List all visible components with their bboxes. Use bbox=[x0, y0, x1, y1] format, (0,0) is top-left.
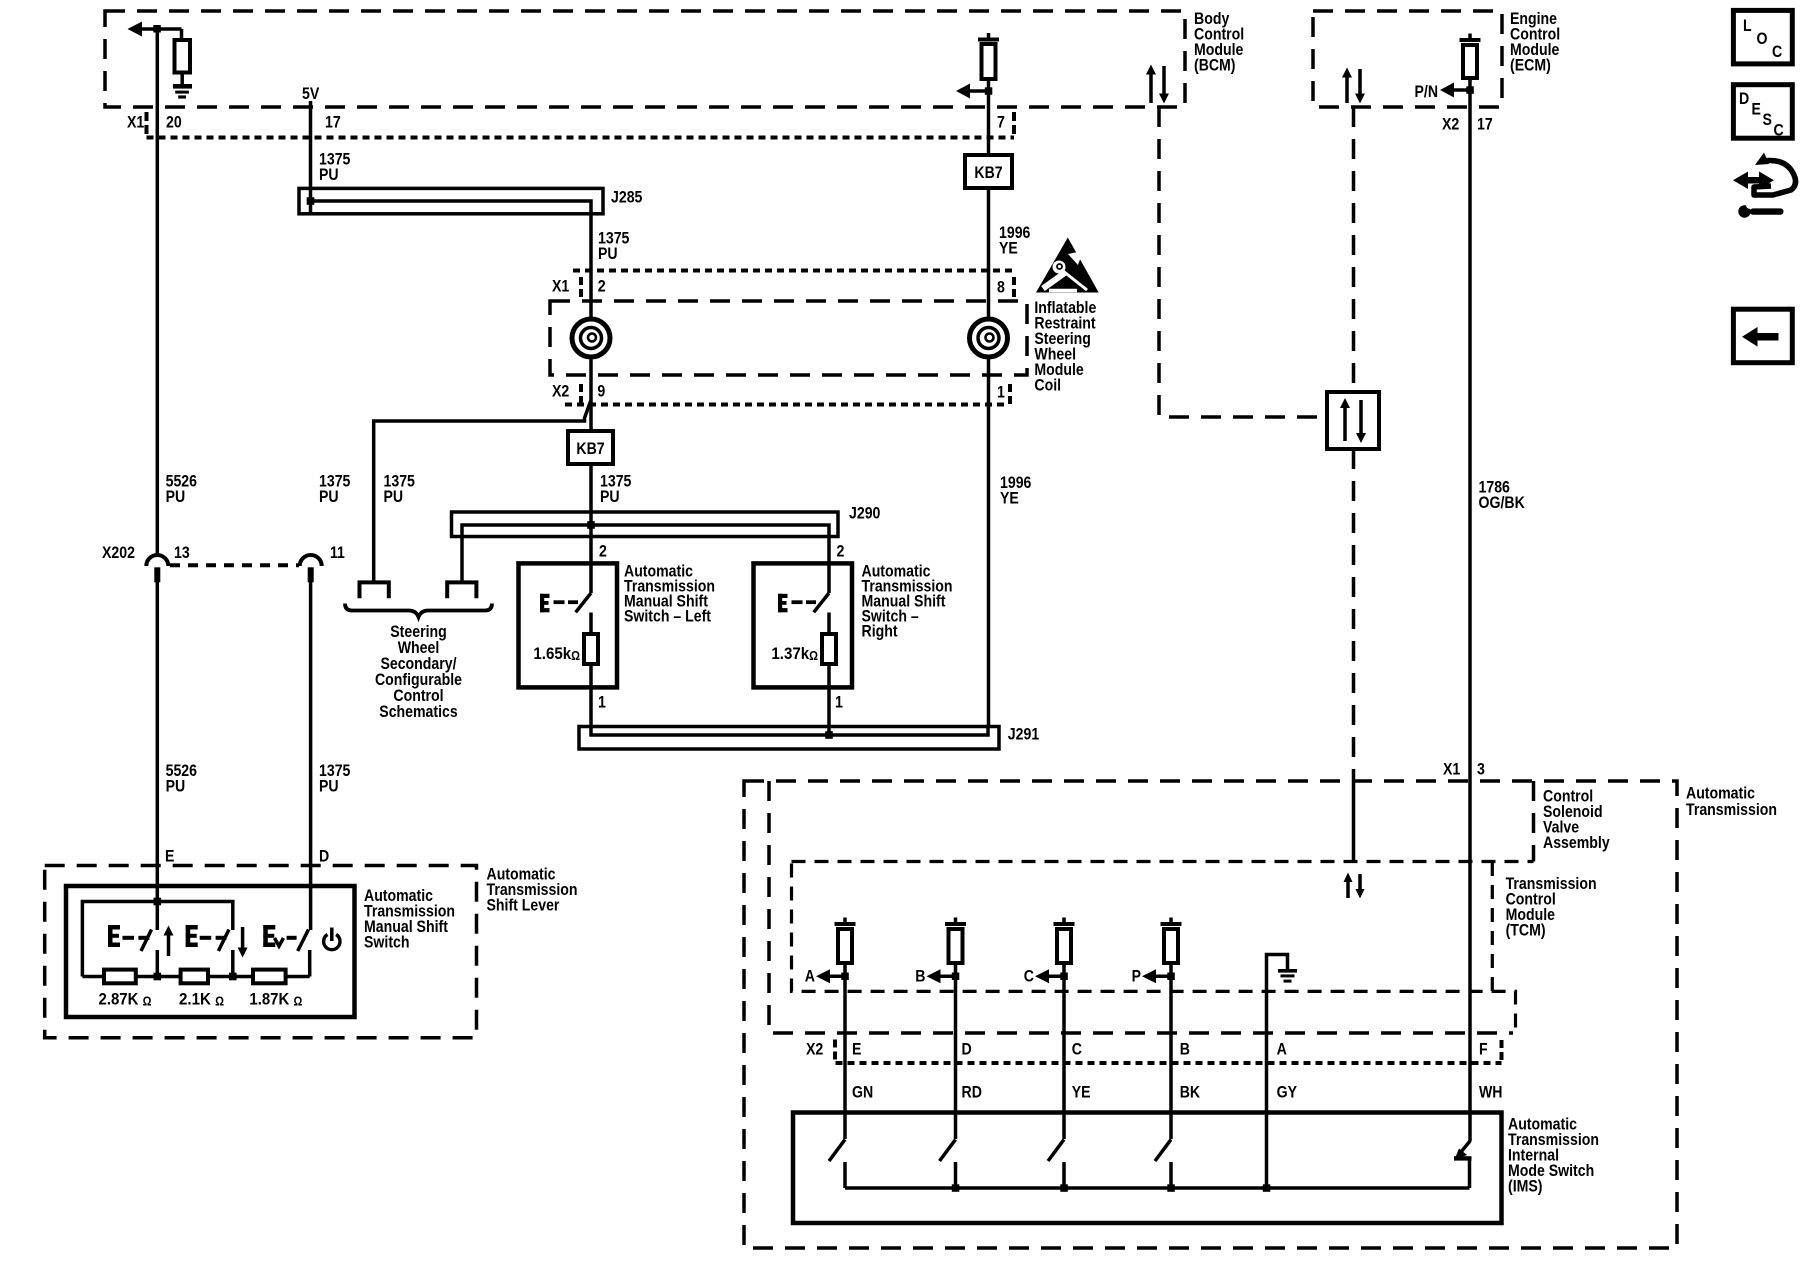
resistor 2.1K bbox=[181, 970, 208, 984]
svg-text:PU: PU bbox=[166, 777, 186, 796]
left switch label bbox=[624, 561, 715, 625]
pin E label bbox=[165, 846, 174, 865]
Automatic Transmission dashed box bbox=[744, 781, 1677, 1248]
wire color GN bbox=[852, 1082, 873, 1101]
manual shift switch label bbox=[364, 886, 455, 952]
svg-text:WH: WH bbox=[1479, 1082, 1503, 1101]
BCM X1 connector dotted line bbox=[147, 136, 1015, 140]
dashed serial data line from ECM upper bbox=[1352, 107, 1356, 392]
switch symbol E (left switch) bbox=[540, 593, 591, 612]
pin C bbox=[1072, 1039, 1082, 1058]
solenoid driver resistor P bbox=[1161, 918, 1182, 1140]
svg-text:YE: YE bbox=[1072, 1082, 1091, 1101]
svg-text:D: D bbox=[1739, 89, 1749, 108]
svg-text:Right: Right bbox=[862, 621, 898, 640]
TCM X2 connector dotted line bbox=[836, 1061, 1502, 1065]
junction dot ECM pin 17 bbox=[1466, 86, 1474, 94]
steering wheel stub 1 bbox=[360, 582, 389, 598]
ground symbol inside BCM bbox=[173, 84, 192, 99]
svg-text:5V: 5V bbox=[302, 84, 320, 103]
connector X1 label (coil) bbox=[552, 277, 569, 296]
down arrow bbox=[238, 927, 248, 958]
IMS label bbox=[1508, 1114, 1599, 1195]
svg-text:X202: X202 bbox=[102, 543, 135, 562]
airbag warning triangle bbox=[1036, 238, 1099, 293]
svg-text:KB7: KB7 bbox=[576, 439, 604, 458]
connector X1 label (transmission) bbox=[1443, 759, 1460, 778]
node 5V bbox=[302, 84, 320, 103]
pin 2 label (right switch) bbox=[837, 541, 845, 560]
coil label bbox=[1034, 298, 1096, 395]
svg-text:C: C bbox=[1772, 42, 1782, 61]
svg-text:2: 2 bbox=[598, 277, 606, 296]
svg-text:E: E bbox=[1752, 100, 1761, 119]
power icon bbox=[324, 928, 340, 950]
IMS wiper switch F bbox=[1454, 1141, 1472, 1188]
Control Solenoid Valve Assembly dashed right edge bbox=[1532, 781, 1536, 862]
BCM data up/down arrows bbox=[1146, 65, 1169, 104]
coil right (clockspring) bbox=[970, 319, 1008, 357]
connector X202 label bbox=[102, 543, 135, 562]
solenoid driver resistor B bbox=[945, 918, 966, 1140]
svg-text:X1: X1 bbox=[1443, 759, 1460, 778]
connector X1 label (BCM) bbox=[127, 113, 144, 132]
IMS switch E blade bbox=[829, 1140, 845, 1189]
svg-text:GY: GY bbox=[1277, 1082, 1298, 1101]
svg-text:E: E bbox=[165, 846, 174, 865]
J285 splice bus bbox=[299, 188, 603, 214]
pin 17 bbox=[325, 113, 341, 132]
label 1786 OG/BK bbox=[1479, 477, 1526, 512]
svg-text:PU: PU bbox=[166, 487, 186, 506]
Automatic Transmission Manual Shift Switch - Left box bbox=[519, 563, 618, 687]
up arrow bbox=[164, 926, 174, 957]
svg-text:OG/BK: OG/BK bbox=[1479, 493, 1526, 512]
switch 2 blade bbox=[218, 930, 232, 977]
pin 20 bbox=[166, 113, 182, 132]
wire: KB7 down to coil X1-8 bbox=[987, 188, 991, 321]
svg-text:7: 7 bbox=[997, 113, 1005, 132]
value label 2.87K ohm bbox=[99, 990, 152, 1009]
svg-text:J285: J285 bbox=[611, 188, 642, 207]
Automatic Transmission Manual Shift Switch - Right box bbox=[754, 563, 853, 687]
svg-text:GN: GN bbox=[852, 1082, 873, 1101]
svg-text:KB7: KB7 bbox=[974, 163, 1002, 182]
KB7 fuse box (BCM side) bbox=[965, 155, 1012, 188]
solid serial data line into transmission bbox=[1352, 781, 1356, 862]
label 1375 PU (lower) bbox=[319, 761, 350, 796]
TCM dashed right edge bbox=[1491, 862, 1494, 991]
connector separator X1 bbox=[145, 112, 149, 134]
pin 8 (coil X1) bbox=[997, 278, 1005, 297]
pin 3 (transmission X1) bbox=[1477, 759, 1485, 778]
label 1375 PU (5V wire above X202) bbox=[319, 471, 350, 506]
BCM internal left arrow (signal to left) bbox=[128, 22, 182, 37]
Control Solenoid Valve Assembly dashed bottom edge bbox=[792, 860, 1534, 863]
solenoid driver resistor C bbox=[1054, 918, 1075, 1140]
IMS switch D blade bbox=[940, 1140, 956, 1189]
svg-text:YE: YE bbox=[999, 239, 1018, 258]
svg-text:X1: X1 bbox=[552, 277, 569, 296]
steering wheel stub 2 bbox=[447, 582, 476, 598]
resistor 1.37k (right switch) bbox=[822, 613, 836, 736]
pin 2 label (left switch) bbox=[599, 541, 607, 560]
svg-text:1: 1 bbox=[598, 693, 606, 712]
dashed jumper wire X202 13-11 bbox=[170, 563, 299, 567]
pin 7 bbox=[997, 113, 1005, 132]
wire: BCM pin 7 down to KB7 (circuit 1996 YE) bbox=[987, 91, 991, 155]
svg-text:17: 17 bbox=[1477, 115, 1493, 134]
svg-text:13: 13 bbox=[174, 543, 190, 562]
value label 2.1K ohm bbox=[179, 990, 224, 1009]
pin B bbox=[1180, 1039, 1190, 1058]
svg-text:J291: J291 bbox=[1008, 724, 1039, 743]
svg-text:J290: J290 bbox=[849, 504, 880, 523]
svg-text:O: O bbox=[1757, 29, 1768, 48]
internal top link wire bbox=[82, 902, 232, 977]
wire color YE bbox=[1072, 1082, 1091, 1101]
arrow left at BCM pin 7 bbox=[956, 84, 989, 99]
Body Control Module (BCM) dashed box bbox=[105, 11, 1185, 107]
pin D label bbox=[319, 846, 329, 865]
back arrow icon box bbox=[1733, 309, 1792, 363]
junction dot at BCM pin 20 branch bbox=[153, 25, 161, 33]
junction dot IMS D bbox=[952, 1184, 960, 1192]
junction dot J285 bbox=[307, 197, 315, 205]
wire: X202-13 down to shift switch E (5526 PU) bbox=[156, 582, 160, 930]
pin F bbox=[1479, 1039, 1488, 1058]
svg-text:L: L bbox=[1743, 16, 1752, 35]
pin D bbox=[962, 1039, 972, 1058]
pin 17 (ECM) bbox=[1477, 115, 1493, 134]
connector separator after pin 7 bbox=[1012, 112, 1016, 134]
svg-text:C: C bbox=[1774, 121, 1784, 140]
pin A bbox=[1277, 1039, 1287, 1058]
LOC icon box bbox=[1733, 10, 1792, 64]
connector separator coil X2 left bbox=[579, 384, 583, 404]
svg-text:1: 1 bbox=[835, 693, 843, 712]
wire color WH bbox=[1479, 1082, 1503, 1101]
coil X2 connector dotted line bbox=[565, 403, 1008, 407]
resistor 1.65k (left switch) bbox=[584, 613, 598, 727]
svg-text:D: D bbox=[319, 846, 329, 865]
wire: coil X2-1 down to J291 (1996 YE) bbox=[987, 356, 991, 727]
ground symbol (TCM) bbox=[1278, 969, 1297, 983]
wire color RD bbox=[962, 1082, 982, 1101]
label J285 bbox=[611, 188, 642, 207]
resistor at BCM pin 7 driver bbox=[978, 33, 999, 91]
connector X2 label (coil) bbox=[552, 381, 569, 400]
wire: ECM X2-17 down to IMS (circuit 1786 OG/BK) bbox=[1468, 90, 1472, 1142]
connector X2 label (ECM) bbox=[1442, 115, 1459, 134]
junction dot IMS A bbox=[1263, 1184, 1271, 1192]
junction dot A bbox=[841, 973, 849, 981]
junction dot IMS C bbox=[1060, 1184, 1068, 1192]
BCM label bbox=[1194, 9, 1244, 75]
value label 1.87K ohm bbox=[249, 990, 302, 1009]
svg-text:B: B bbox=[915, 967, 925, 986]
switch 1 blade bbox=[141, 930, 157, 977]
node P arrow bbox=[1132, 967, 1171, 986]
svg-text:PU: PU bbox=[319, 777, 339, 796]
svg-text:(ECM): (ECM) bbox=[1510, 56, 1551, 75]
branch wire from coil X2-9 to steering wheel stub (1375 PU) bbox=[374, 400, 591, 581]
wire: X202-11 down to shift switch D (1375 PU) bbox=[309, 582, 313, 930]
wire: J290 to right shift switch pin 2 bbox=[827, 537, 831, 594]
svg-text:Assembly: Assembly bbox=[1543, 833, 1610, 852]
value label 1.37k ohm bbox=[771, 644, 818, 663]
svg-text:P/N: P/N bbox=[1415, 82, 1439, 101]
connector X2 label (TCM) bbox=[806, 1039, 823, 1058]
junction dot BCM pin 7 bbox=[985, 87, 993, 95]
svg-text:Transmission: Transmission bbox=[1686, 800, 1777, 819]
connector separator coil X2 right bbox=[1008, 384, 1012, 404]
svg-text:A: A bbox=[805, 967, 815, 986]
svg-text:X2: X2 bbox=[806, 1039, 823, 1058]
Automatic Transmission label bbox=[1686, 784, 1777, 820]
svg-text:RD: RD bbox=[962, 1082, 982, 1101]
junction dot B bbox=[952, 973, 960, 981]
wire color BK bbox=[1180, 1082, 1201, 1101]
svg-text:PU: PU bbox=[600, 487, 620, 506]
svg-text:Switch – Left: Switch – Left bbox=[624, 606, 711, 625]
TCM pin area dashed box bbox=[792, 864, 1516, 1032]
svg-text:B: B bbox=[1180, 1039, 1190, 1058]
junction dot switch E input bbox=[154, 898, 162, 906]
value label 1.65k ohm bbox=[533, 644, 580, 663]
junction dot bus 2 bbox=[229, 973, 237, 981]
node B arrow bbox=[915, 967, 955, 986]
svg-text:Shift Lever: Shift Lever bbox=[487, 895, 560, 914]
svg-text:YE: YE bbox=[1000, 489, 1019, 508]
TCM dashed box left and bottom bbox=[769, 781, 1513, 1033]
switch 1 (up) symbol E bbox=[108, 925, 149, 947]
solenoid driver resistor A bbox=[835, 918, 856, 1140]
resistor inside BCM (pull-up) bbox=[175, 29, 191, 84]
label J290 bbox=[849, 504, 880, 523]
svg-text:PU: PU bbox=[384, 487, 404, 506]
switch 3 blade bbox=[298, 930, 310, 977]
svg-text:X1: X1 bbox=[127, 113, 144, 132]
svg-text:P: P bbox=[1132, 967, 1141, 986]
svg-text:C: C bbox=[1072, 1039, 1082, 1058]
label 1375 PU (below J285) bbox=[598, 228, 629, 263]
label 5526 PU (lower) bbox=[166, 761, 197, 796]
svg-text:2: 2 bbox=[837, 541, 845, 560]
wire: BCM X1-20 down to X202-13 (circuit 5526 PU) bbox=[156, 29, 160, 555]
svg-text:F: F bbox=[1479, 1039, 1488, 1058]
svg-text:PU: PU bbox=[319, 165, 339, 184]
serial data gateway box with up/down arrows bbox=[1327, 392, 1379, 449]
switch 3 (power) symbol Ev bbox=[263, 925, 296, 947]
brace for steering wheel schematics bbox=[345, 604, 492, 618]
junction dot J290 bbox=[587, 521, 595, 529]
X202 pin 11 connector symbol bbox=[300, 555, 322, 582]
svg-text:D: D bbox=[962, 1039, 972, 1058]
pin 1 (coil X2) bbox=[997, 382, 1005, 401]
svg-text:S: S bbox=[1763, 110, 1772, 129]
Automatic Transmission Shift Lever dashed box bbox=[45, 866, 477, 1038]
svg-text:X2: X2 bbox=[1442, 115, 1459, 134]
resistor 2.87K bbox=[104, 970, 136, 984]
pin 13 label bbox=[174, 543, 190, 562]
coil left (clockspring) bbox=[572, 319, 610, 357]
svg-text:9: 9 bbox=[597, 381, 605, 400]
switch 2 (down) symbol E bbox=[186, 925, 227, 947]
connector separator coil X1 left bbox=[579, 277, 583, 297]
Engine Control Module (ECM) dashed box bbox=[1313, 11, 1502, 107]
dashed serial data line from BCM bbox=[1159, 107, 1325, 417]
label 1996 YE (lower) bbox=[1000, 473, 1031, 508]
dashed serial data line from gateway down bbox=[1352, 449, 1356, 781]
wire: J285 down to coil X1-2 (1375 PU) bbox=[589, 214, 593, 321]
junction dot bus 1 bbox=[154, 973, 162, 981]
label 1375 PU (branch wire) bbox=[384, 471, 415, 506]
svg-text:X2: X2 bbox=[552, 381, 569, 400]
connector separator TCM X2 right bbox=[1500, 1040, 1504, 1060]
label 1996 YE (upper) bbox=[999, 223, 1030, 258]
svg-text:8: 8 bbox=[997, 278, 1005, 297]
IMS common bus bbox=[845, 1186, 1470, 1190]
svg-text:E: E bbox=[852, 1039, 861, 1058]
node P/N with arrow bbox=[1415, 82, 1471, 101]
wire: 5V to BCM X1-17 to J285 bbox=[309, 101, 313, 214]
pin 9 (coil X2) bbox=[597, 381, 605, 400]
TCM label bbox=[1506, 874, 1597, 940]
svg-text:20: 20 bbox=[166, 113, 182, 132]
node C arrow bbox=[1024, 967, 1064, 986]
label J291 bbox=[1008, 724, 1039, 743]
steering wheel schematics label bbox=[375, 622, 462, 721]
svg-text:C: C bbox=[1024, 967, 1034, 986]
J290 splice bus bbox=[452, 512, 839, 537]
ECM data up/down arrows bbox=[1342, 68, 1365, 104]
svg-text:(TCM): (TCM) bbox=[1506, 921, 1546, 940]
resistor network bus bbox=[82, 975, 309, 979]
svg-text:3: 3 bbox=[1477, 759, 1485, 778]
ECM label bbox=[1510, 9, 1560, 75]
CSVA label bbox=[1543, 786, 1610, 852]
svg-text:2: 2 bbox=[599, 541, 607, 560]
X202 pin 13 connector symbol bbox=[146, 555, 168, 582]
switch symbol E (right switch) bbox=[778, 593, 829, 612]
resistor 1.87K bbox=[253, 970, 286, 984]
IMS switch C blade bbox=[1048, 1140, 1064, 1189]
connector separator coil X1 right bbox=[1012, 277, 1016, 297]
junction dot P bbox=[1167, 973, 1175, 981]
svg-text:11: 11 bbox=[330, 543, 345, 562]
svg-text:(BCM): (BCM) bbox=[1194, 56, 1236, 75]
Inflatable Restraint Steering Wheel Module Coil dashed box bbox=[550, 301, 1027, 375]
svg-text:BK: BK bbox=[1180, 1082, 1201, 1101]
KB7 fuse box (coil side) bbox=[568, 431, 613, 464]
svg-text:17: 17 bbox=[325, 113, 341, 132]
pin 2 (coil X1) bbox=[598, 277, 606, 296]
svg-text:Coil: Coil bbox=[1034, 376, 1061, 395]
pin 11 label bbox=[330, 543, 345, 562]
node A arrow bbox=[805, 967, 845, 986]
pin 1 label (left switch) bbox=[598, 693, 606, 712]
junction dot IMS B bbox=[1167, 1184, 1175, 1192]
label 1375 PU (above J285, 5V wire) bbox=[319, 149, 350, 184]
pin 1 label (right switch) bbox=[835, 693, 843, 712]
J291 splice bus bbox=[579, 727, 999, 750]
junction dot J291 bbox=[825, 731, 833, 739]
DESC icon box bbox=[1733, 85, 1792, 140]
resistor at ECM pin 17 bbox=[1460, 34, 1481, 91]
svg-text:(IMS): (IMS) bbox=[1508, 1176, 1543, 1195]
IMS switch B blade bbox=[1155, 1140, 1171, 1189]
wire: coil X2-9 down through KB7 to J290 bbox=[589, 356, 593, 594]
label 1375 PU (below KB7) bbox=[600, 471, 631, 506]
TCM internal ground wire bbox=[1267, 955, 1288, 1189]
connector separator TCM X2 left bbox=[833, 1040, 837, 1060]
Automatic Transmission Internal Mode Switch (IMS) box bbox=[793, 1113, 1502, 1224]
svg-text:Switch: Switch bbox=[364, 932, 410, 951]
Automatic Transmission Manual Shift Switch box bbox=[66, 886, 355, 1017]
TCM data up/down arrows bbox=[1344, 873, 1365, 899]
pin E bbox=[852, 1039, 861, 1058]
svg-text:A: A bbox=[1277, 1039, 1287, 1058]
label 5526 PU (left wire upper) bbox=[166, 471, 197, 506]
shift lever label bbox=[487, 864, 578, 914]
wire: J290 to steering stub 2 bbox=[460, 537, 464, 581]
svg-text:1: 1 bbox=[997, 382, 1005, 401]
right switch label bbox=[862, 561, 953, 640]
wire color GY bbox=[1277, 1082, 1298, 1101]
svg-text:PU: PU bbox=[598, 244, 618, 263]
svg-text:Schematics: Schematics bbox=[379, 702, 457, 721]
svg-text:PU: PU bbox=[319, 487, 339, 506]
schematic reference icon (arrow + wrench) bbox=[1733, 153, 1796, 218]
junction dot C bbox=[1060, 973, 1068, 981]
coil X1 connector dotted line bbox=[573, 269, 1014, 273]
